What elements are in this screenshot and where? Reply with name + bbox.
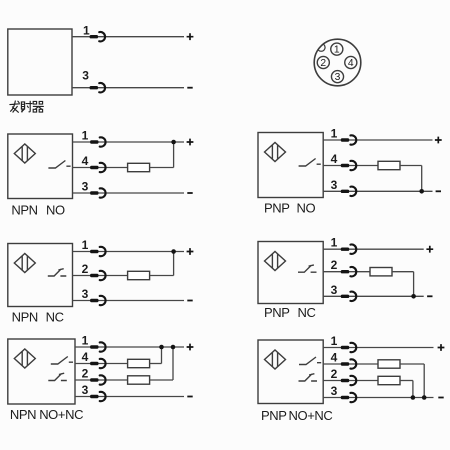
svg-text:2: 2 [320, 58, 326, 69]
PNP NO wire 4 to load [323, 165, 378, 167]
svg-text:NO+NC: NO+NC [39, 407, 83, 422]
svg-text:2: 2 [82, 367, 89, 381]
svg-text:4: 4 [348, 58, 354, 69]
PNP NO junction on - rail [419, 189, 424, 194]
PNP NO+NC NO contact [299, 357, 321, 365]
PNP NC junction on - rail [411, 294, 416, 299]
NPN NC load resistor [128, 271, 150, 279]
PNP NO+NC wire 1 (+ rail) [323, 347, 433, 349]
PNP NO plug wire 1 [341, 135, 356, 144]
NPN NO load resistor [128, 163, 150, 171]
svg-text:1: 1 [331, 236, 338, 250]
svg-text:NPN: NPN [10, 407, 36, 422]
NPN NO+NC plug wire 4 [90, 359, 105, 368]
NPN NO wire 3 (- rail) [73, 192, 185, 194]
M12 connector face outline [314, 39, 361, 86]
svg-text:3: 3 [82, 69, 89, 83]
NPN NC wire 1 (+ rail) [73, 251, 185, 253]
NPN NO+NC NO junction on + rail [159, 345, 164, 350]
NPN NO+NC NC load resistor [128, 376, 150, 384]
PNP NO+NC wire 2 to NC load [323, 380, 378, 382]
NPN NO+NC plug wire 1 [90, 342, 105, 351]
NPN NC plus terminal [187, 248, 194, 255]
NPN NO+NC wire 4 to NO load [75, 363, 128, 365]
NPN NO+NC plug wire 3 [90, 392, 105, 401]
NPN NC NC contact [48, 269, 67, 276]
svg-text:PNP: PNP [264, 305, 290, 320]
NPN NO+NC NC junction on + rail [171, 345, 176, 350]
NPN NO+NC minus terminal [187, 396, 192, 398]
PNP NO sensor symbol [265, 143, 286, 162]
NPN NC plug wire 1 [90, 247, 105, 256]
svg-text:3: 3 [331, 384, 338, 398]
svg-text:NO: NO [297, 201, 316, 216]
svg-text:2: 2 [331, 367, 338, 381]
NPN NO+NC plug wire 2 [90, 375, 105, 384]
PNP NC plus terminal [426, 246, 433, 253]
svg-text:NPN: NPN [11, 202, 37, 217]
NPN NO+NC wire 2 to NC load [75, 379, 128, 381]
wire pin1 to + (transmitter) [72, 36, 184, 38]
NPN NC sensor box [8, 244, 73, 307]
NPN NO+NC NC riser to + rail [172, 347, 174, 380]
PNP NO wire 1 (+ rail) [323, 139, 432, 141]
minus terminal (transmitter) [187, 87, 192, 89]
PNP NO caption [264, 201, 315, 216]
svg-text:3: 3 [82, 287, 89, 301]
PNP NO+NC sensor box [258, 340, 323, 404]
NPN NO+NC NC load link [150, 379, 173, 381]
svg-text:1: 1 [331, 127, 338, 141]
PNP NO+NC NC riser to - rail [412, 381, 414, 398]
PNP NO sensor box [258, 133, 323, 198]
NPN NC caption [12, 310, 64, 325]
PNP NC sensor symbol [265, 252, 286, 271]
PNP NO+NC NC load resistor [378, 376, 400, 384]
svg-text:4: 4 [82, 350, 89, 364]
NPN NC wire load to riser [150, 275, 174, 277]
PNP NO+NC plug wire 4 [341, 359, 356, 368]
PNP NO plug wire 4 [341, 161, 356, 170]
connector pin 1 [331, 43, 343, 56]
NPN NC riser to + rail [173, 252, 175, 276]
PNP NO wire load to riser [400, 165, 422, 167]
svg-text:3: 3 [82, 383, 89, 397]
svg-text:NC: NC [298, 305, 316, 320]
PNP NC wire 1 (+ rail) [323, 248, 424, 250]
NPN NO+NC plus terminal [187, 344, 194, 351]
connector pin 2 [317, 56, 329, 69]
NPN NO wire 1 (+ rail) [73, 141, 185, 143]
PNP NC caption [264, 305, 315, 320]
svg-text:PNP: PNP [264, 201, 290, 216]
PNP NO+NC minus terminal [438, 397, 443, 399]
PNP NO+NC NC junction on - rail [411, 395, 416, 400]
NPN NC wire 3 (- rail) [73, 300, 185, 302]
NPN NO plug wire 3 [90, 188, 105, 197]
PNP NC wire 3 (- rail) [323, 295, 424, 297]
PNP NO+NC caption [261, 408, 332, 423]
PNP NC NC contact [298, 265, 317, 272]
svg-text:4: 4 [331, 152, 338, 166]
NPN NO wire 4 to load [73, 167, 128, 169]
svg-text:2: 2 [331, 258, 338, 272]
PNP NO+NC NO riser to - rail [423, 364, 425, 398]
PNP NO+NC wire 3 (- rail) [323, 397, 433, 399]
PNP NO+NC plus terminal [438, 344, 445, 351]
PNP NO+NC sensor symbol [265, 350, 286, 369]
PNP NO+NC NC load link [400, 380, 413, 382]
connector plug on wire 3 [90, 83, 105, 92]
NPN NO+NC NO load link [150, 363, 162, 365]
svg-text:1: 1 [83, 24, 90, 38]
keying notch [317, 44, 325, 52]
PNP NO load resistor [378, 161, 400, 169]
svg-text:1: 1 [82, 238, 89, 252]
svg-text:NO+NC: NO+NC [289, 408, 333, 423]
PNP NC riser to - rail [413, 272, 415, 297]
caption "发射器" (transmitter) [10, 101, 44, 112]
NPN NO sensor symbol [14, 144, 35, 163]
PNP NO+NC plug wire 2 [341, 376, 356, 385]
NPN NO+NC NO load resistor [128, 359, 150, 367]
PNP NO+NC plug wire 1 [341, 343, 356, 352]
PNP NC plug wire 2 [341, 267, 356, 276]
PNP NC sensor box [258, 242, 323, 304]
plus terminal (transmitter) [187, 33, 194, 40]
PNP NC minus terminal [427, 295, 432, 297]
svg-text:3: 3 [331, 283, 338, 297]
svg-text:3: 3 [82, 180, 89, 194]
NPN NC junction on + rail [171, 249, 176, 254]
svg-text:1: 1 [334, 45, 340, 56]
svg-text:1: 1 [331, 334, 338, 348]
svg-text:NO: NO [46, 202, 65, 217]
NPN NC wire 2 to load [73, 275, 128, 277]
PNP NO riser to - rail [421, 166, 423, 192]
NPN NO+NC sensor box [8, 339, 75, 404]
NPN NO plug wire 1 [90, 137, 105, 146]
svg-text:3: 3 [335, 72, 341, 83]
NPN NO+NC NO contact [51, 357, 73, 365]
PNP NC plug wire 3 [341, 292, 356, 301]
PNP NO+NC NO junction on - rail [422, 395, 427, 400]
PNP NC plug wire 1 [341, 245, 356, 254]
PNP NC wire load to riser [392, 271, 414, 273]
PNP NO plus terminal [435, 137, 442, 144]
svg-text:1: 1 [82, 129, 89, 143]
NPN NO+NC wire 3 (- rail) [75, 396, 184, 398]
NPN NC minus terminal [187, 300, 192, 302]
PNP NO wire 3 (- rail) [323, 190, 432, 192]
svg-text:4: 4 [331, 351, 338, 365]
svg-text:NPN: NPN [12, 310, 38, 325]
NPN NO plug wire 4 [90, 163, 105, 172]
PNP NO plug wire 3 [341, 187, 356, 196]
connector pin 3 [331, 71, 343, 84]
PNP NO+NC plug wire 3 [341, 393, 356, 402]
svg-text:2: 2 [82, 262, 89, 276]
PNP NO+NC NO load link [400, 363, 424, 365]
PNP NO minus terminal [436, 190, 441, 192]
NPN NO caption [11, 202, 65, 217]
PNP NC load resistor [370, 268, 392, 276]
svg-text:4: 4 [82, 154, 89, 168]
connector plug on wire 1 [90, 32, 105, 41]
NPN NO+NC wire 1 (+ rail) [75, 346, 184, 348]
wire pin3 to - (transmitter) [72, 87, 184, 89]
PNP NO+NC NC contact [299, 374, 318, 381]
NPN NO minus terminal [187, 192, 192, 194]
NPN NO+NC sensor symbol [14, 349, 35, 368]
NPN NO+NC NO riser to + rail [161, 347, 163, 364]
NPN NO riser to + rail [173, 142, 175, 168]
connector pin 4 [345, 56, 357, 69]
PNP NC wire 2 to load [323, 271, 370, 273]
NPN NO+NC NC contact [48, 373, 67, 380]
NPN NO+NC caption [10, 407, 83, 422]
PNP NO+NC NO load resistor [378, 360, 400, 368]
NPN NC plug wire 2 [90, 271, 105, 280]
PNP NO+NC wire 4 to NO load [323, 363, 378, 365]
NPN NC sensor symbol [14, 254, 35, 273]
NPN NC plug wire 3 [90, 296, 105, 305]
NPN NO plus terminal [187, 139, 194, 146]
NPN NO wire load to riser [150, 167, 174, 169]
NPN NO junction on + rail [171, 140, 176, 145]
transmitter box [8, 29, 72, 95]
NPN NO NO contact [48, 161, 70, 169]
PNP NO NO contact [299, 159, 321, 167]
NPN NO sensor box [8, 134, 73, 199]
svg-text:1: 1 [82, 334, 89, 348]
svg-text:NC: NC [46, 310, 64, 325]
svg-text:3: 3 [331, 178, 338, 192]
svg-text:PNP: PNP [261, 408, 287, 423]
